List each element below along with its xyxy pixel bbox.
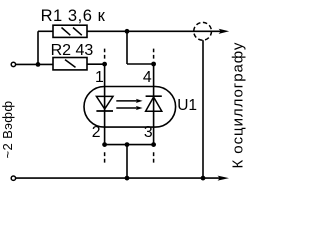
svg-text:3: 3 bbox=[144, 124, 153, 141]
svg-text:1: 1 bbox=[95, 69, 104, 86]
svg-text:4: 4 bbox=[143, 69, 152, 86]
svg-text:~2 Вэфф: ~2 Вэфф bbox=[0, 101, 15, 159]
svg-text:2: 2 bbox=[92, 124, 101, 141]
svg-text:R2 43: R2 43 bbox=[51, 42, 94, 59]
svg-text:U1: U1 bbox=[177, 97, 197, 114]
svg-text:R1 3,6 к: R1 3,6 к bbox=[41, 7, 106, 25]
svg-text:К осциллографу: К осциллографу bbox=[230, 42, 247, 169]
